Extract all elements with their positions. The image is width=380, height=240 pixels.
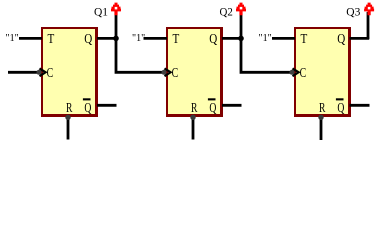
svg-text:R: R: [319, 101, 326, 116]
svg-text:C: C: [47, 66, 54, 81]
svg-text:T: T: [301, 32, 308, 47]
svg-text:Q2: Q2: [220, 7, 234, 19]
svg-text:Q: Q: [337, 32, 345, 47]
svg-text:C: C: [172, 66, 179, 81]
svg-text:Q1: Q1: [94, 7, 108, 19]
svg-text:Q: Q: [84, 32, 92, 47]
svg-text:"1": "1": [132, 33, 145, 44]
svg-text:Q: Q: [84, 101, 91, 116]
svg-text:"1": "1": [6, 33, 19, 44]
svg-text:R: R: [66, 101, 73, 116]
svg-text:T: T: [48, 32, 55, 47]
svg-text:Q: Q: [209, 32, 217, 47]
svg-text:Q3: Q3: [346, 7, 360, 19]
svg-text:Q: Q: [337, 101, 344, 116]
svg-text:C: C: [300, 66, 307, 81]
svg-text:R: R: [191, 101, 198, 116]
svg-text:"1": "1": [259, 33, 272, 44]
svg-text:T: T: [173, 32, 180, 47]
svg-text:Q: Q: [209, 101, 216, 116]
